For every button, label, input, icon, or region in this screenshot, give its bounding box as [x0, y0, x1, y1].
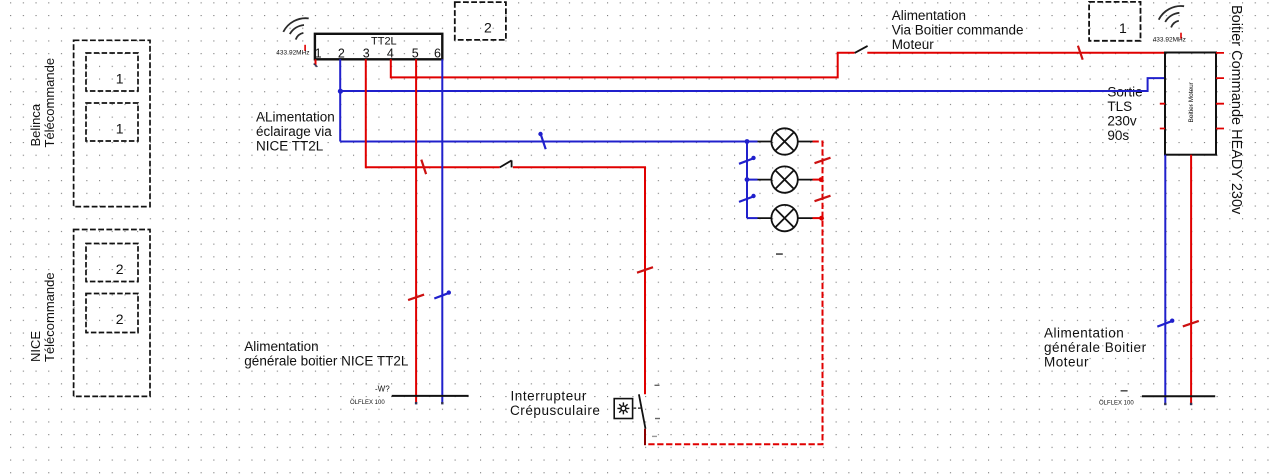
tick blue with dot on lamp feeder horizontal — [538, 132, 545, 149]
svg-text:Interrupteur: Interrupteur — [511, 388, 587, 403]
svg-text:2: 2 — [116, 311, 124, 327]
svg-text:Crépusculaire: Crépusculaire — [510, 403, 600, 418]
wire red stub lamp3 — [813, 216, 824, 221]
wire blue motor drop — [1164, 155, 1166, 405]
wire red dashed return (lamps to interrupteur) — [646, 142, 823, 445]
boitier moteur box — [1165, 53, 1216, 155]
svg-text:Télécommande: Télécommande — [42, 58, 57, 148]
svg-text:Moteur: Moteur — [892, 37, 935, 52]
svg-text:Moteur: Moteur — [1044, 355, 1089, 370]
telecommande NICE group box — [74, 230, 150, 397]
svg-text:-W?: -W? — [375, 385, 390, 394]
tick red on pin5 wire — [408, 295, 424, 301]
lamps reference label — [776, 253, 783, 255]
svg-text:Via Boitier commande: Via Boitier commande — [892, 22, 1024, 37]
svg-text:Boitier Moteur: Boitier Moteur — [1188, 81, 1195, 122]
boitier moteur terminal stubs — [1160, 53, 1224, 129]
tick blue with dot on moteur blue drop — [1157, 319, 1174, 327]
tick red on moteur feed wire — [1078, 46, 1083, 60]
tick blue with dot on pin6 wire — [434, 290, 451, 298]
svg-text:1: 1 — [1119, 20, 1127, 36]
tick red on interrupteur feed wire — [421, 160, 426, 175]
label Sortie TLS 230v 90s — [1107, 85, 1142, 144]
telecommande Belinca group box — [74, 40, 150, 206]
wire pin6 blue down to cable — [441, 59, 443, 404]
svg-text:1: 1 — [315, 47, 322, 61]
wire pin5 red down to cable — [415, 59, 417, 404]
svg-text:ÖLFLEX 100: ÖLFLEX 100 — [350, 399, 385, 406]
svg-text:Télécommande: Télécommande — [42, 272, 57, 362]
wire blue lamp feeder vertical — [747, 142, 758, 219]
TT2L pin numbers 1-6 — [315, 47, 441, 61]
label Alimentation generale Boitier Moteur — [1044, 326, 1147, 370]
tick blue with dot on feeder vertical lower — [739, 194, 756, 202]
label Boitier Commande HEADY 230v — [1228, 5, 1244, 215]
svg-text:5: 5 — [412, 47, 419, 61]
label Alimentation Via Boitier commande Moteur — [892, 8, 1024, 52]
svg-text:1: 1 — [116, 71, 124, 87]
svg-text:230v: 230v — [1107, 114, 1137, 129]
svg-text:Alimentation: Alimentation — [1044, 326, 1124, 341]
dashed box 2 (top middle) — [455, 2, 506, 40]
wire blue lamp feeder horizontal — [340, 141, 747, 143]
telecommande NICE button 2 (top) — [86, 244, 138, 282]
svg-text:générale boitier NICE TT2L: générale boitier NICE TT2L — [244, 353, 409, 368]
tick red on dashed return lower — [815, 196, 831, 202]
wire pin2 blue down — [339, 59, 341, 141]
interrupteur crepusculaire symbol — [614, 385, 660, 446]
tick red on dashed return upper — [815, 158, 831, 164]
label NICE Telecommande — [28, 272, 57, 362]
svg-text:2: 2 — [338, 47, 345, 61]
lamp L2 — [758, 166, 813, 192]
svg-text:ALimentation: ALimentation — [256, 110, 335, 125]
svg-text:NICE TT2L: NICE TT2L — [256, 139, 324, 154]
svg-text:433.92MHz: 433.92MHz — [276, 50, 309, 57]
svg-text:ÖLFLEX 100: ÖLFLEX 100 — [1099, 400, 1134, 407]
svg-text:1: 1 — [116, 121, 124, 137]
svg-text:433.92MHz: 433.92MHz — [1153, 37, 1186, 44]
svg-text:Belinca: Belinca — [28, 103, 43, 146]
lamp L3 — [758, 205, 813, 231]
junction lamp1 tap — [745, 139, 750, 144]
label Alimentation generale boitier NICE TT2L — [244, 339, 409, 369]
tick blue with dot on feeder vertical upper — [739, 156, 756, 164]
wire red stub lamp2 — [813, 177, 824, 182]
antenna HEADY 433.92MHz — [1153, 6, 1186, 44]
label Belinca Telecommande — [28, 58, 57, 148]
junction pin2 branch — [338, 89, 343, 94]
switch contact on red wire (x 855-867) — [855, 46, 868, 53]
svg-text:générale Boitier: générale Boitier — [1044, 340, 1147, 355]
switch contact on red wire (x 500-513) — [500, 160, 512, 167]
svg-text:90s: 90s — [1107, 128, 1129, 143]
wire pin4 red to moteur switch — [391, 53, 1165, 78]
junction lamp2 tap — [745, 177, 750, 182]
svg-text:éclairage via: éclairage via — [256, 124, 332, 139]
wire blue branch to motor box (Sortie) — [340, 78, 1165, 91]
svg-text:2: 2 — [116, 261, 124, 277]
wire pin3 red to interrupteur — [366, 59, 645, 394]
lamp L1 — [758, 128, 813, 154]
svg-text:4: 4 — [387, 47, 394, 61]
svg-text:TLS: TLS — [1107, 99, 1132, 114]
svg-text:3: 3 — [363, 47, 370, 61]
dashed box 1 (top right) — [1089, 2, 1140, 41]
svg-text:Alimentation: Alimentation — [892, 8, 966, 23]
svg-text:NICE: NICE — [28, 331, 43, 362]
svg-text:Boitier Commande HEADY 230v: Boitier Commande HEADY 230v — [1228, 5, 1244, 215]
label Interrupteur Crepusculaire — [510, 388, 600, 418]
cable marker W? (left) — [350, 385, 469, 407]
wire red motor drop — [1190, 155, 1192, 405]
wire pin1 stub (red) — [314, 59, 318, 67]
svg-text:Alimentation: Alimentation — [244, 339, 318, 354]
receiver TT2L box — [315, 34, 442, 60]
label ALimentation eclairage via NICE TT2L — [256, 110, 335, 154]
tick red on red drop x645 — [637, 267, 653, 273]
cable marker (right) — [1099, 390, 1215, 407]
svg-text:2: 2 — [484, 20, 492, 36]
antenna TT2L 433.92MHz — [276, 18, 309, 56]
telecommande Belinca button 1 (bottom) — [86, 103, 138, 141]
telecommande Belinca button 1 (top) — [86, 53, 138, 91]
svg-text:6: 6 — [434, 47, 441, 61]
telecommande NICE button 2 (bottom) — [86, 294, 138, 333]
tick red on moteur red drop — [1183, 321, 1199, 327]
